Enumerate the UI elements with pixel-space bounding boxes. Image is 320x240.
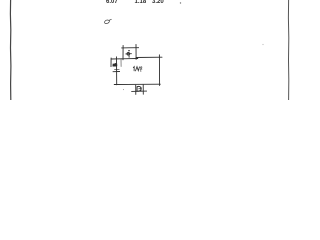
svg-text:1.18: 1.18	[135, 0, 147, 5]
svg-text:6.07: 6.07	[106, 0, 118, 5]
svg-text:3.20: 3.20	[152, 0, 164, 5]
